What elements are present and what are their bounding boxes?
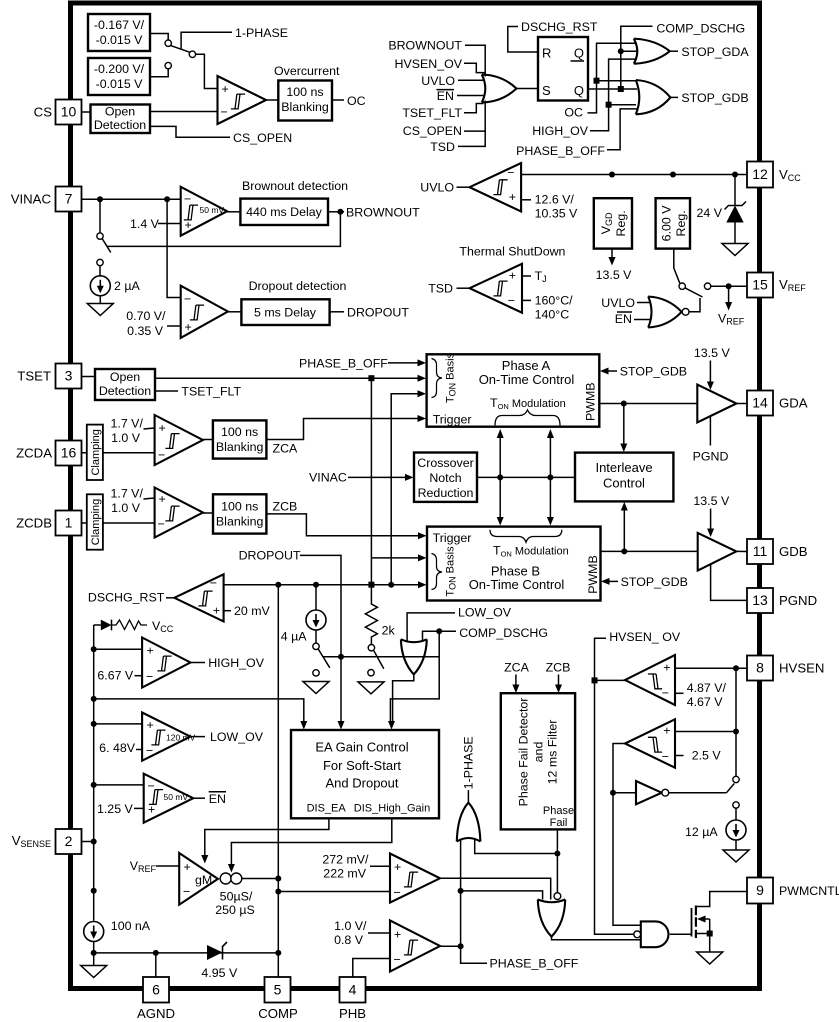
pin 2 VSENSE [56,829,82,854]
svg-text:1.0 V/: 1.0 V/ [334,919,367,933]
wire LOW_OV out [190,736,205,738]
wire pin3 to open detection [82,376,96,378]
svg-text:−: − [148,779,155,793]
svg-text:ZCDA: ZCDA [16,446,52,461]
svg-text:HVSEN: HVSEN [779,661,824,676]
svg-text:EA Gain Control: EA Gain Control [315,740,408,755]
nor gate UVLO/EN [648,297,681,328]
switch 12uA contact bottom [733,802,739,808]
zener 24V [734,175,736,206]
svg-text:Phase Fail Detector: Phase Fail Detector [517,698,531,807]
svg-text:Control: Control [603,476,645,491]
svg-text:7: 7 [65,191,73,207]
wire pin16 to ZCDA comparator [82,452,156,454]
regulator VGD [594,198,632,248]
svg-text:Notch: Notch [429,471,461,485]
svg-text:8: 8 [756,660,764,676]
svg-text:CS_OPEN: CS_OPEN [403,124,462,138]
wire VSENSE rail [93,625,95,921]
svg-text:TSET_FLT: TSET_FLT [181,385,241,399]
pin 9 PWMCNTL [747,878,773,904]
svg-text:DROPOUT: DROPOUT [347,306,409,320]
wire comparator to delay box [227,211,240,213]
svg-text:−: − [184,192,191,206]
svg-text:CS_OPEN: CS_OPEN [233,131,292,145]
wire 4uA from bus [315,585,317,610]
svg-text:12 ms Filter: 12 ms Filter [546,720,560,785]
wire COMP_DSCHG down to EA box [390,631,439,721]
svg-text:PWMCNTL: PWMCNTL [779,884,839,898]
svg-text:12 µA: 12 µA [685,825,718,839]
svg-text:50 mV: 50 mV [164,792,189,802]
svg-text:50 mV: 50 mV [200,205,225,215]
svg-text:222 mV: 222 mV [323,867,366,881]
junction comp zener [275,950,281,956]
svg-text:0.8 V: 0.8 V [334,933,364,947]
IC boundary frame [71,3,760,989]
wire ZCB to phase B trigger [266,514,418,536]
svg-text:Brownout detection: Brownout detection [242,179,348,193]
svg-text:2k: 2k [382,624,396,638]
wire ton mod up arrows [499,437,501,477]
svg-text:EN: EN [437,89,454,103]
wire HIGH_OV out [190,662,205,664]
svg-text:−: − [183,885,190,899]
delay box 440ms [240,199,328,225]
wire comparator to 5ms delay [228,311,241,313]
svg-text:Reg.: Reg. [674,210,688,236]
comparator HIGH_OV [142,638,190,688]
svg-text:STOP_GDA: STOP_GDA [681,45,749,59]
wire discharge bus to phase B in3 [224,584,419,586]
wire Q to STOP_GDB in2 [588,88,637,90]
svg-text:2: 2 [65,833,73,849]
wire tap to vertical or gate [461,891,543,900]
svg-text:+: + [147,718,154,732]
junction HVSEN comp1 out [592,677,598,683]
svg-text:For Soft-Start: For Soft-Start [323,758,401,773]
comparator UVLO [470,163,521,212]
wire VINAC bus from pin 7 [82,198,181,200]
svg-text:OC: OC [347,94,366,108]
wire EN out [193,797,205,799]
wire HIGH_OV up [590,59,636,131]
svg-text:BROWNOUT: BROWNOUT [388,39,462,53]
junction Q branch [618,86,624,92]
wire box2 to switch contact B [150,69,168,77]
svg-text:HIGH_OV: HIGH_OV [208,656,265,670]
wire pin10 to open detection [82,111,91,113]
wire nor output to switch blade [689,298,700,312]
wire mosfet source [696,933,710,935]
junction comp 272 [275,889,281,895]
wire PHASE_B_OFF to phase A in1 [388,362,418,364]
wire PWMA to GDA driver [599,403,697,405]
junction bus 4uA [313,582,319,588]
wire 272 comparator output to or gate [440,878,551,899]
svg-text:+: + [394,860,401,874]
svg-text:COMP: COMP [258,1006,298,1021]
pin 16 ZCDA [56,441,82,466]
junction pin2 [91,839,97,845]
comparator TSD [470,264,522,313]
svg-text:DIS_High_Gain: DIS_High_Gain [354,803,430,815]
svg-text:−: − [507,166,514,180]
wire 1-PHASE to switch blade [181,32,232,49]
wire to STOP_GDA in2 [621,50,637,52]
svg-text:0.35 V: 0.35 V [127,324,164,338]
wire gM output [242,878,278,880]
svg-text:440 ms Delay: 440 ms Delay [246,205,323,219]
junction phase fail [554,851,560,857]
svg-text:DROPOUT: DROPOUT [239,549,301,563]
ground 12uA [723,850,749,862]
threshold box -0.200V [88,58,150,95]
pin 10 CS [56,100,82,125]
brace TON basis B [432,554,443,590]
pin 7 VINAC [56,187,82,212]
svg-text:4.67 V: 4.67 V [687,695,724,709]
wire phase A in3 vertical [391,394,418,585]
current source 100nA [84,922,104,942]
svg-text:50µS/: 50µS/ [220,890,253,904]
switch blade [171,46,190,53]
switch 4uA contact bottom [313,670,319,676]
switch 2k blade [374,650,384,669]
svg-text:+: + [147,644,154,658]
brownout switch contact top [97,233,103,239]
wire STOP_GDB out [670,96,678,98]
latch SR [538,37,588,101]
svg-text:1: 1 [65,515,73,531]
bubble and gate input [634,931,641,938]
svg-text:Overcurrent: Overcurrent [274,64,340,78]
svg-text:2.5 V: 2.5 V [692,749,722,763]
junction COMP_DSCHG [436,628,442,634]
wire pin1 to ZCDB comparator [82,522,156,524]
svg-text:2 µA: 2 µA [114,279,140,293]
junction LOW_OV plus [91,721,97,727]
current source 4uA [306,610,326,630]
wire STOP_GDB into phase A [600,368,609,375]
svg-text:Open: Open [110,370,140,384]
wire or output to EA box [393,674,414,721]
svg-text:BROWNOUT: BROWNOUT [346,206,420,220]
wire pin8 rail down [735,668,737,820]
svg-text:1.0 V: 1.0 V [111,431,141,445]
svg-text:PHASE_B_OFF: PHASE_B_OFF [490,957,579,971]
comparator DSCHG_RST [174,574,223,621]
svg-text:−: − [184,292,191,306]
svg-text:PWMB: PWMB [584,382,598,421]
wire phase fail output [556,829,558,892]
wire PHB pin to comparator minus [353,959,390,978]
comparator HVSEN 2.5V [625,719,675,767]
pin 12 VCC [747,162,773,188]
svg-text:+: + [663,660,670,674]
wire inverter input [613,792,636,794]
wire 160C stub [522,299,531,301]
wire 4uA blade tap to comp_dschg line [323,656,439,658]
svg-text:ZCA: ZCA [504,661,530,675]
wire contact bottom to 2uA source [99,266,101,276]
wire DIS_EA to gM [205,818,329,855]
svg-text:24 V: 24 V [697,206,723,220]
or gate 1-PHASE [457,803,481,842]
svg-text:STOP_GDB: STOP_GDB [621,575,688,589]
wire BROWNOUT output [328,211,344,213]
comparator 272mV [390,854,440,903]
wire comp to 272 comparator minus [278,891,390,893]
wire LOW_OV into or gate [407,613,455,643]
svg-text:-0.015 V: -0.015 V [96,77,144,91]
svg-text:100 ns: 100 ns [221,500,258,514]
wire PHASE_B_OFF to STOP_GDB in4 [607,109,637,150]
wire zener to ground [734,223,736,244]
svg-text:PHASE_B_OFF: PHASE_B_OFF [516,144,605,158]
svg-text:STOP_GDB: STOP_GDB [620,365,687,379]
wire UVLO to OR [458,79,484,81]
svg-text:+: + [509,269,516,283]
brownout switch contact bottom [97,259,103,265]
open detection box CS [91,105,151,134]
wire PWMB up to interleave [623,510,625,551]
current source 2uA [90,276,110,296]
wire switch to pin 15 [711,285,747,287]
ground 4uA [303,682,329,694]
svg-text:6.67 V: 6.67 V [97,669,134,683]
mosfet body arrow [704,918,710,920]
svg-text:+: + [222,82,229,96]
svg-text:-0.167 V/: -0.167 V/ [94,18,145,32]
svg-text:250 µS: 250 µS [215,903,255,917]
or gate STOP_GDA [634,39,670,64]
svg-text:Dropout detection: Dropout detection [249,279,347,293]
delay box 5ms [241,299,329,325]
svg-text:HVSEN_ OV: HVSEN_ OV [609,630,681,644]
svg-text:1-PHASE: 1-PHASE [235,26,288,40]
switch common contact [189,51,195,57]
svg-text:gM: gM [195,873,212,887]
phase A on-time control box [427,354,600,426]
svg-text:S: S [542,83,551,98]
pin 4 PHB [340,977,366,1003]
junction pin8 rail [733,665,739,671]
wire TSD to OR vertical bus [458,130,485,146]
svg-text:+: + [184,860,191,874]
open detection box TSET [95,369,155,400]
pin 11 GDB [747,539,773,564]
wire DSCHG_RST to R input [508,27,538,53]
svg-text:1.7 V/: 1.7 V/ [111,487,144,501]
threshold box -0.167V [88,14,150,51]
wire CS_OPEN to OR [464,101,485,132]
wire box1 to switch contact A [150,34,168,41]
wire DROPOUT output [330,311,344,313]
svg-text:UVLO: UVLO [420,180,454,194]
comparator dropout [181,286,228,338]
svg-text:OC: OC [564,106,583,120]
junction bus in3 vertical [388,582,394,588]
ground below 2uA [87,304,113,316]
wire OR to S input [517,88,539,90]
svg-text:Phase: Phase [543,805,574,817]
wire OC to STOP_GDB in1 [597,80,638,82]
switch VREF contact B [704,283,710,289]
wire STOP_GDA out [670,50,678,52]
svg-text:3: 3 [65,368,73,384]
zener 4.95V [207,945,223,960]
svg-text:−: − [146,670,153,684]
wire 12uA to ground [735,840,737,850]
clamping box A [87,425,103,480]
svg-text:On-Time Control: On-Time Control [479,372,575,387]
pin 5 COMP [265,977,291,1003]
junction STOP_GDA in2 [618,48,624,54]
brace TON modulation B [490,530,562,542]
diode to VCC [94,624,101,626]
pin 14 GDA [747,391,773,416]
svg-text:1.25 V: 1.25 V [97,802,134,816]
or gate EA control [401,639,427,674]
svg-text:1.4 V: 1.4 V [130,217,160,231]
wire TON bus A to phase B in2 [371,557,418,559]
wire VSENSE to EA box arrow [94,699,304,722]
mosfet Q1 [691,908,693,937]
junction AGND rail [91,950,97,956]
svg-text:LOW_OV: LOW_OV [458,606,512,620]
comparator ZCDA [155,415,203,465]
svg-text:Clamping: Clamping [90,499,102,545]
switch VREF contact A [679,283,685,289]
svg-text:12: 12 [752,166,768,182]
svg-text:HVSEN_OV: HVSEN_OV [395,57,463,71]
svg-text:−: − [210,576,217,590]
svg-text:HIGH_OV: HIGH_OV [532,124,589,138]
wire to EN minus [94,784,144,786]
svg-text:10: 10 [61,104,77,120]
junction HIGH_OV plus [91,646,97,652]
svg-text:1.0 V: 1.0 V [111,501,141,515]
wire crossover to interleave [477,476,575,478]
wire UVLO + input stub [521,199,531,201]
wire Q up to COMP_DSCHG [621,26,653,89]
svg-text:TSET: TSET [17,369,51,384]
svg-text:12.6 V/: 12.6 V/ [535,193,575,207]
wire OC up to STOP gates [588,43,637,113]
svg-text:−: − [508,294,515,308]
svg-text:Detection: Detection [99,384,151,398]
svg-text:EN: EN [615,312,632,326]
wire 1-PHASE up [467,790,469,803]
svg-text:Blanking: Blanking [216,440,264,454]
switch contact A [165,40,171,46]
comparator 1.0V PHB [390,920,440,971]
junction gM minus [91,888,97,894]
wire BROWNOUT to OR [465,45,485,76]
junction OC to GDB [594,78,600,84]
wire brownout feedback [107,212,341,247]
switch contact B [165,62,171,68]
wire to HIGH_OV plus [94,648,142,650]
amplifier gM [179,853,218,905]
svg-text:20 mV: 20 mV [234,604,271,618]
svg-text:120 mV: 120 mV [166,733,196,743]
wire TSET to phase A in2 [155,377,418,379]
junction comp2 pin8 [733,729,739,735]
phase fail detector box [501,693,575,829]
switch 2k contact top [368,645,374,651]
svg-text:−: − [158,517,165,531]
svg-text:5 ms Delay: 5 ms Delay [254,306,317,320]
svg-text:140°C: 140°C [535,308,570,322]
svg-text:ZCA: ZCA [273,442,299,456]
svg-text:LOW_OV: LOW_OV [210,730,264,744]
junction inverter input [610,790,616,796]
wire ton mod down arrows [499,477,501,517]
wire to LOW_OV plus [94,723,142,725]
wire comp1 plus to pin8 [675,667,747,669]
bubble inverted input [554,893,561,900]
wire HVSEN_OV to OR [464,63,485,72]
wire 1.4V to comparator + [158,223,180,225]
wire switch common to comparator + [196,54,217,88]
svg-text:R: R [542,46,551,61]
wire TSET_FLT [155,390,178,392]
phase B on-time control box [427,527,601,601]
svg-text:Q: Q [574,83,584,98]
svg-text:+: + [159,421,166,435]
wire PWMA down to interleave [623,404,625,445]
svg-text:Interleave: Interleave [595,460,652,475]
regulator 6.00V [656,198,690,248]
wire GDB pgnd to pin 13 [711,564,747,600]
wire comp1 output [595,679,626,681]
junction HIGH_OV branch [606,102,612,108]
svg-text:-0.015 V: -0.015 V [96,33,144,47]
pin 1 ZCDB [56,511,82,536]
wire HIGH_OV to STOP_GDB in3 [609,104,636,106]
wire 1-PHASE or input B [475,839,558,854]
svg-text:+: + [159,492,166,506]
svg-text:And Dropout: And Dropout [326,776,399,791]
or gate pwm off (vertical) [538,900,565,937]
svg-text:−: − [158,448,165,462]
svg-text:Trigger: Trigger [433,413,472,427]
wire GDA pgnd [709,416,711,445]
junction interleave A [621,401,627,407]
interleave control box [575,453,673,502]
junction pin6 [153,950,159,956]
wire COMP_DSCHG into or gate [423,631,457,642]
switch 4uA contact top [313,643,319,649]
brownout switch blade [102,239,111,253]
wire DSCHG_RST output [166,597,174,599]
svg-text:−: − [394,886,401,900]
junction VINAC A [97,196,103,202]
svg-text:4.87 V/: 4.87 V/ [687,681,727,695]
wire VINAC down to brownout switch [99,199,101,233]
junction 6V reg [670,172,676,178]
svg-text:6.00 V: 6.00 V [660,205,674,242]
svg-text:10.35 V: 10.35 V [535,207,578,221]
or gate STOP_GDB [636,80,671,114]
wire to blanking A [203,439,213,441]
svg-text:Detection: Detection [94,118,146,132]
wire PWMB to GDB driver [601,550,698,552]
svg-text:100 nA: 100 nA [111,919,151,933]
svg-text:1.7 V/: 1.7 V/ [111,417,144,431]
